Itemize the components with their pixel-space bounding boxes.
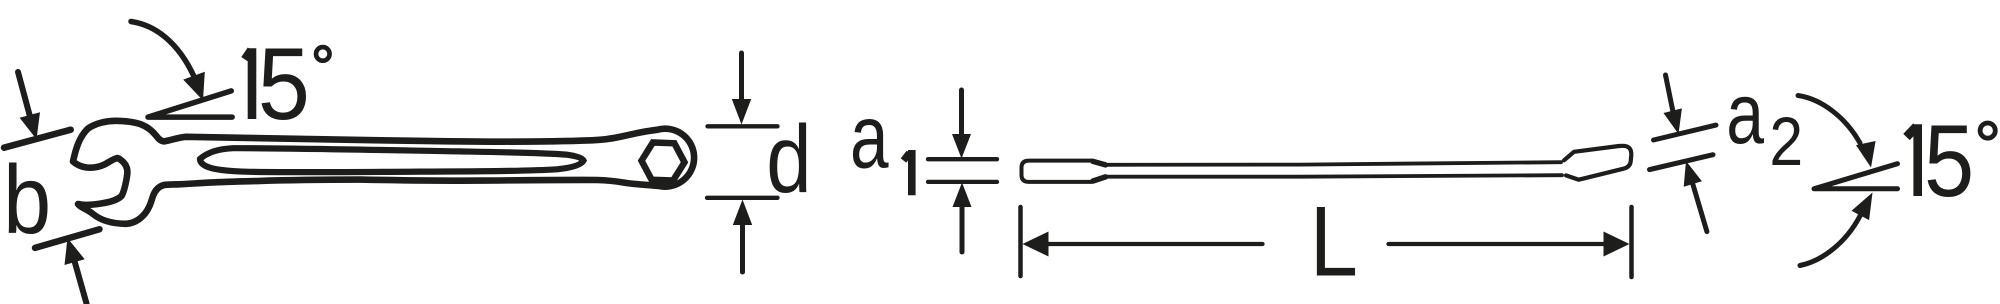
dimension L right arrow (1389, 232, 1630, 257)
dimension b upper arrow (18, 72, 40, 139)
dimension a1 bottom arrow (953, 183, 972, 253)
label a1 (850, 87, 912, 196)
angle wedge right 15 deg (1814, 164, 1898, 189)
svg-text:a: a (1726, 67, 1765, 162)
dimension L left arrow (1023, 232, 1263, 257)
right 15 deg upper curved arrow (1798, 96, 1876, 168)
side view boss bottom chamfer (1093, 177, 1106, 181)
svg-text:5: 5 (258, 26, 310, 140)
shaft slot (200, 148, 584, 172)
side view ring boss outline (1022, 161, 1107, 182)
side view open-end head (1564, 146, 1631, 180)
wrench top view outline (73, 121, 694, 224)
dimension L left extension line (1018, 207, 1023, 276)
dimension d top arrow (732, 53, 751, 125)
dimension b lower tick (35, 229, 100, 248)
dimension d bottom arrow (733, 200, 752, 273)
dimension b upper tick (4, 130, 71, 148)
dimension a2 upper tick (1654, 125, 1717, 140)
right 15 deg lower curved arrow (1800, 193, 1873, 266)
dimension d top tick (708, 124, 778, 128)
side view shaft top line (1104, 162, 1561, 165)
dimension a1 top arrow (952, 90, 971, 159)
dimension a2 lower tick (1650, 155, 1714, 170)
angle wedge left 15 deg (148, 91, 232, 117)
svg-text:2: 2 (1769, 102, 1803, 179)
svg-text:L: L (1310, 186, 1358, 297)
dimension b lower arrow (65, 238, 87, 304)
side view boss top chamfer (1093, 161, 1106, 165)
side view shaft bottom line (1104, 175, 1562, 177)
dimension a1 ticks (928, 157, 997, 161)
ring hexagon (642, 143, 685, 181)
dimension L right extension line (1629, 207, 1634, 277)
label a2 (1726, 67, 1803, 180)
curved leader arrow for left 15 deg (131, 22, 205, 101)
dimension a2 upper arrow (1664, 75, 1682, 134)
label 15 deg right (1907, 105, 1996, 218)
dimension d bottom tick (707, 196, 778, 200)
label 15 deg left (245, 26, 330, 140)
svg-text:b: b (3, 146, 51, 254)
dimension a2 lower arrow (1684, 161, 1707, 232)
svg-text:a: a (850, 87, 889, 188)
svg-text:5: 5 (1924, 105, 1974, 218)
